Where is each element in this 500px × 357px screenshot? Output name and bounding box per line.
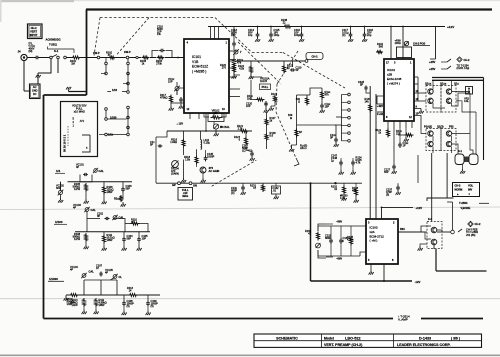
dashed linkage volts/div: [94, 18, 252, 56]
svg-text:1/8W: 1/8W: [107, 238, 114, 242]
resistor R116: [170, 131, 185, 148]
scan crease line top: [0, 207, 500, 210]
capacitor C127 33P: [384, 150, 397, 174]
resistor R134 47: [305, 229, 320, 241]
label -25V: [429, 67, 447, 71]
capacitor C121 15P: [320, 100, 331, 113]
resistor network row2: [103, 233, 115, 244]
svg-text:1/1000: 1/1000: [49, 277, 58, 281]
capacitor C125: [398, 128, 409, 148]
capacitor C105 row2: [137, 234, 148, 242]
resistor R101: [70, 56, 81, 66]
capacitor C115 bus: [269, 27, 280, 42]
wire wafer feed: [335, 124, 342, 126]
capacitor C116 bus: [294, 27, 304, 42]
svg-text:100μ: 100μ: [294, 33, 300, 37]
grounds row2: [84, 242, 142, 251]
capacitor C114 bus: [248, 27, 260, 42]
wire bus y61: [229, 60, 305, 62]
contact SW1-P: [93, 51, 100, 59]
svg-text:+25V: +25V: [429, 67, 436, 71]
resistor R126 220: [396, 129, 413, 137]
svg-text:DC: DC: [33, 92, 37, 96]
transistor Q110: [428, 141, 433, 146]
svg-text:+12V: +12V: [416, 206, 423, 210]
svg-text:33P: 33P: [384, 170, 389, 174]
label PULL boxed: [260, 84, 271, 90]
label CH-2 FEE: [458, 222, 481, 237]
svg-text:R64: R64: [400, 227, 405, 231]
label box CH-2 VERT INPUT: [28, 24, 43, 39]
svg-text:R1xx: R1xx: [114, 197, 121, 201]
svg-text:Ω: Ω: [290, 116, 292, 120]
svg-text:V1B: V1B: [192, 60, 199, 64]
svg-text:270k: 270k: [156, 61, 162, 65]
svg-text:SCHEMATIC: SCHEMATIC: [276, 336, 298, 340]
svg-text:CH-2: CH-2: [455, 184, 462, 188]
resistor R118: [184, 149, 198, 164]
svg-text:−56V: −56V: [336, 220, 342, 224]
labels Q105-Q108: [425, 82, 459, 86]
label T-2584: [427, 198, 489, 210]
trimmer DC BAL: [213, 124, 230, 129]
svg-text:5P: 5P: [296, 68, 299, 72]
ground S-3: [418, 244, 427, 251]
wire +12V bus: [208, 25, 455, 29]
svg-text:470kΩ: 470kΩ: [160, 96, 168, 100]
svg-text:CAL: CAL: [99, 169, 105, 173]
wire IC103 net rails: [318, 226, 366, 256]
svg-text:CAL: CAL: [91, 208, 97, 212]
scan edge line bottom: [0, 354, 500, 356]
scan smudge top-left: [0, 0, 500, 22]
schematic border frame: [44, 10, 493, 319]
svg-text:(C): (C): [242, 148, 246, 152]
IC103 right pin out: [398, 227, 415, 232]
svg-text:(M): (M): [29, 49, 33, 53]
capacitor C151 at verticals: [358, 80, 370, 93]
svg-text:AC GAIN: AC GAIN: [209, 169, 220, 173]
svg-text:.01: .01: [273, 188, 277, 192]
wire long vertical B: [375, 94, 377, 219]
svg-text:S-1: S-1: [54, 49, 59, 53]
switch S-1: [50, 49, 67, 59]
wire -12V bottom run: [311, 280, 421, 284]
svg-text:CL: CL: [119, 275, 123, 279]
wire vert x418: [417, 84, 419, 183]
legend box VOLTS/DIV PULL x10MAG: [61, 102, 98, 157]
svg-text:(C): (C): [231, 191, 235, 195]
svg-text:1M: 1M: [71, 62, 75, 66]
wire input to frame: [27, 57, 92, 59]
svg-text:1000P: 1000P: [207, 154, 215, 158]
resistor R119: [233, 54, 244, 68]
label 1/10: [107, 88, 126, 92]
transistor Q105: [428, 89, 433, 94]
svg-text:F+42: F+42: [377, 112, 383, 116]
svg-text:270: 270: [222, 65, 227, 69]
svg-text:+42V: +42V: [377, 104, 383, 108]
label R130 net: [340, 194, 348, 200]
resistor R106 111k: [103, 185, 114, 195]
svg-text:P32: P32: [449, 125, 454, 129]
svg-text:AC: AC: [33, 85, 37, 89]
pot VR103 10k: [208, 109, 224, 126]
trimmer VC106 15P: [168, 77, 180, 95]
svg-text:x2B: x2B: [387, 73, 392, 77]
wire S-2 drops: [458, 134, 476, 155]
label T-2514 V.AMP at frame gap: [398, 314, 410, 321]
resistor R141 47k: [321, 88, 332, 100]
svg-text:IC103: IC103: [370, 226, 378, 230]
svg-text:AC/GND/DC: AC/GND/DC: [46, 38, 61, 42]
wire row1 drops: [61, 182, 124, 191]
label +42V pins: [377, 104, 384, 116]
wire lower cluster: [156, 131, 203, 178]
svg-text:▲: ▲: [457, 193, 460, 196]
resistor R124v: [234, 131, 248, 150]
svg-text:IC102: IC102: [387, 68, 395, 72]
svg-text:( +M ): ( +M ): [370, 239, 378, 243]
resistor R108 990k: [73, 232, 88, 242]
svg-text:(C): (C): [342, 33, 346, 37]
resistor R115: [95, 298, 107, 307]
svg-text:3P: 3P: [330, 135, 333, 139]
contact SW2-P: [124, 50, 131, 59]
op-amp IC103: [366, 219, 398, 264]
capacitor C122 3P: [330, 125, 339, 147]
svg-text:LEADER ELECTRONICS CORP.: LEADER ELECTRONICS CORP.: [397, 343, 451, 347]
resistor R107 1M: [114, 195, 123, 202]
capacitor C145 1000P: [204, 150, 215, 161]
svg-text:1/2W: 1/2W: [74, 187, 81, 191]
transistor Q114: [431, 239, 437, 245]
arrow to T-2154: [447, 57, 470, 69]
svg-text:Q1(3): Q1(3): [437, 125, 444, 129]
transistor Q108: [446, 98, 451, 103]
svg-text:1P: 1P: [299, 130, 302, 134]
resistor R142 560: [376, 42, 384, 53]
svg-text:+25V: +25V: [429, 60, 436, 64]
wire C113 chain to bus: [234, 27, 240, 76]
trimmer VC104: [70, 265, 94, 278]
resistor R135: [347, 226, 354, 256]
wire row2 drops: [104, 232, 139, 238]
svg-text:15P: 15P: [325, 104, 330, 108]
svg-text:ECM-512Z: ECM-512Z: [192, 65, 208, 69]
svg-text:R121: R121: [271, 92, 278, 96]
trimmer cal mark VC101: [93, 168, 104, 173]
legend box CH-2 VOL NORM INV: [453, 183, 480, 197]
capacitor C117 bus: [342, 27, 353, 42]
svg-text:Q1x: Q1x: [454, 82, 459, 86]
grounds row3: [82, 306, 151, 315]
junction dot main-IC101: [177, 57, 179, 59]
svg-text:1/2W: 1/2W: [72, 303, 79, 307]
label -12V left: [176, 122, 183, 126]
resistor R103: [140, 56, 150, 65]
capacitor C109 1000P: [146, 295, 158, 308]
svg-text:5.6: 5.6: [270, 133, 274, 137]
svg-text:Q1xx: Q1xx: [425, 82, 432, 86]
IC102 top pins: [391, 27, 403, 60]
resistor R109 47: [125, 218, 148, 232]
svg-text:NORM: NORM: [455, 188, 463, 192]
capacitor C146 dashed: [150, 137, 162, 183]
label -56V bottom: [326, 257, 342, 261]
pot VR106: [316, 243, 321, 248]
label Rx LBx-1: [300, 144, 307, 150]
svg-text:100Ω: 100Ω: [395, 41, 401, 45]
ground row3 start: [64, 295, 69, 301]
wire long vertical C: [381, 206, 423, 219]
svg-text:16P: 16P: [246, 104, 251, 108]
contact end bus61: [305, 60, 308, 63]
capacitor C130: [339, 226, 349, 256]
resistor R104: [156, 56, 165, 65]
svg-text:1kΩ B: 1kΩ B: [260, 79, 267, 83]
resistor R110 inline: [67, 294, 80, 306]
svg-text:1P: 1P: [96, 266, 99, 270]
trimmer VC101: [76, 163, 92, 182]
svg-text:+12V: +12V: [447, 25, 455, 29]
IC103 bottom pin: [369, 264, 385, 282]
svg-text:S-1: S-1: [458, 149, 463, 153]
svg-text:SW-P: SW-P: [124, 50, 131, 54]
resistor R102: [106, 51, 116, 59]
svg-text:D-1433: D-1433: [419, 336, 431, 340]
capacitor C110 bridge: [152, 25, 172, 58]
ground below IC102: [404, 135, 409, 142]
wire J4 shield down: [24, 59, 58, 91]
svg-text:→12V: →12V: [176, 122, 183, 126]
svg-text:CAL: CAL: [464, 99, 470, 103]
ground feedback: [289, 145, 296, 152]
svg-text:1/10: 1/10: [112, 88, 118, 92]
svg-text:12P: 12P: [231, 33, 236, 37]
svg-text:PULL: PULL: [262, 85, 269, 89]
svg-text:CH-2: CH-2: [464, 58, 471, 62]
svg-text:J31 (3b): J31 (3b): [466, 233, 475, 237]
capacitor C119 5P: [290, 61, 302, 72]
resistor R121b: [269, 92, 278, 111]
wire S3 down: [432, 153, 487, 271]
label box CH-1 ref: [306, 53, 323, 60]
capacitor C103 56P: [121, 184, 132, 192]
capacitor C132 box: [272, 183, 281, 199]
capacitor C102 3P: [97, 212, 110, 221]
svg-text:( 3/6 ): ( 3/6 ): [451, 336, 460, 340]
wire feedback net: [297, 88, 336, 145]
svg-text:47k: 47k: [325, 92, 330, 96]
svg-text:100μ: 100μ: [274, 33, 280, 37]
IC101 left pins: [171, 58, 184, 104]
svg-text:CH-1: CH-1: [311, 54, 318, 58]
label AC/GND/DC: [46, 38, 61, 42]
wire col taps: [99, 74, 128, 135]
svg-text:(GAIN): (GAIN): [171, 171, 179, 175]
svg-text:VOL: VOL: [468, 184, 474, 188]
svg-text:4P: 4P: [70, 268, 73, 272]
resistor R123: [283, 61, 294, 74]
label box FULL x10 MAG: [178, 188, 193, 201]
switch wafer contacts S2-A: [105, 58, 130, 136]
junction dots misc: [257, 26, 404, 28]
IC102 right pins: [414, 77, 426, 130]
scan crease line lower: [0, 298, 500, 300]
op-amp IC101: [184, 39, 229, 113]
wire heavy L drop: [310, 183, 312, 281]
svg-text:( +M285 ): ( +M285 ): [192, 69, 206, 73]
svg-text:V,BODE: V,BODE: [461, 206, 471, 210]
resistor R1xx gain: [247, 80, 264, 101]
svg-text:1/2W: 1/2W: [74, 237, 81, 241]
svg-text:GN: GN: [193, 184, 197, 188]
resistor R131: [250, 183, 265, 192]
wire row3 subrow: [84, 280, 117, 295]
resistor R138 bus: [281, 18, 292, 28]
svg-text:.5 V: .5 V: [80, 119, 85, 123]
wire +12V drop: [430, 27, 436, 60]
svg-text:ECM-1048: ECM-1048: [387, 77, 402, 81]
capacitor C149 680P: [231, 183, 246, 195]
capacitor C104 56P: [122, 234, 133, 242]
svg-text:LBO-522: LBO-522: [345, 336, 361, 340]
resistor R113 in line: [127, 286, 138, 297]
matrix lower wires: [421, 93, 476, 153]
transistor Q109: [428, 131, 433, 136]
capacitor C148 group: [331, 154, 355, 167]
svg-text:x2A: x2A: [370, 230, 375, 234]
IC102 bottom pins: [388, 121, 412, 128]
capacitor C108 1000P: [122, 295, 134, 308]
wire long vertical A: [369, 86, 371, 219]
contact output: [437, 230, 454, 234]
svg-text:P1A(2): P1A(2): [424, 125, 432, 129]
transistor Q113: [431, 227, 437, 233]
resistor R105 900k: [73, 182, 88, 192]
junction output bus: [310, 182, 337, 184]
grounds lower cluster: [181, 129, 219, 183]
resistor R139 300: [296, 95, 309, 106]
trimmer VC107: [233, 46, 242, 55]
svg-text:T-2584: T-2584: [459, 201, 468, 205]
svg-text:1/8W: 1/8W: [99, 303, 106, 307]
svg-text:LBx-1: LBx-1: [300, 146, 307, 150]
resistor R125 group: [339, 156, 363, 175]
wire IC103 left net: [318, 224, 326, 258]
svg-text:CH-2 POS: CH-2 POS: [413, 42, 426, 46]
labels P1A row: [424, 125, 454, 129]
grounds row1: [58, 192, 126, 207]
pot VR101A: [251, 74, 270, 83]
pot VR104 gain: [171, 161, 179, 176]
svg-text:10μ: 10μ: [248, 33, 253, 37]
svg-text:1/8W: 1/8W: [107, 190, 114, 194]
bus pair heavy: [432, 78, 484, 161]
svg-text:V, AMP: V, AMP: [398, 318, 408, 322]
contact mid: [136, 56, 138, 58]
transistor Q112: [446, 141, 451, 146]
switch wiper arrow: [212, 158, 299, 186]
svg-text:Model: Model: [324, 336, 334, 340]
label -56V top: [326, 220, 342, 225]
IC101 right pins: [229, 51, 240, 97]
svg-text:14k: 14k: [365, 99, 370, 103]
capacitor C147 560P: [242, 144, 255, 161]
wire contact link: [447, 153, 452, 230]
svg-text:10k: 10k: [213, 111, 218, 115]
svg-text:4P: 4P: [76, 165, 79, 169]
svg-text:CH-2: CH-2: [31, 26, 38, 30]
capacitor C118 bus: [362, 27, 373, 42]
capacitor C107 1P: [96, 264, 103, 277]
wire attenuator row2: [75, 212, 150, 232]
svg-text:−56V: −56V: [336, 257, 342, 261]
label 1/1000 col: [108, 133, 114, 137]
svg-text:560: 560: [379, 44, 384, 48]
resistor R117 470k: [160, 93, 174, 111]
svg-text:1P: 1P: [403, 143, 406, 147]
svg-text:CH-2: CH-2: [475, 222, 482, 226]
transistor Q107: [446, 89, 451, 94]
svg-text:(5): (5): [151, 304, 154, 308]
svg-text:56P: 56P: [126, 187, 131, 191]
svg-text:2.2k: 2.2k: [238, 127, 244, 131]
switch wafer contacts S2-B: [336, 93, 350, 142]
label 1/4: [55, 169, 65, 173]
trimmer VC102 30P: [56, 182, 64, 196]
resistor R114 990k: [70, 298, 85, 307]
resistor R121 2.2k: [237, 124, 249, 133]
IC101 top pins: [211, 27, 219, 40]
svg-text:Q1xx: Q1xx: [440, 82, 447, 86]
capacitor C137 470P: [386, 183, 401, 196]
svg-text:(C201 14p): (C201 14p): [457, 66, 470, 70]
wire attenuator row3: [66, 294, 160, 296]
resistor R122: [238, 61, 254, 79]
svg-text:4.5k: 4.5k: [239, 66, 245, 70]
transistor Q102: [200, 166, 219, 173]
svg-text:50 20 10 5 2 1: 50 20 10 5 2 1: [63, 134, 67, 152]
label 1/1000: [48, 277, 64, 281]
connector GP contacts: [172, 182, 197, 188]
wire vr103 ends: [204, 113, 226, 117]
dashed pair box lower: [426, 129, 456, 151]
svg-text:44k: 44k: [352, 188, 357, 192]
trimmer VC10x row2: [112, 215, 124, 220]
wire IC101 out row: [167, 125, 252, 132]
svg-text:( +M274 ): ( +M274 ): [387, 82, 400, 86]
boxed arrow symbol: [466, 87, 473, 95]
switch S-2 body: [455, 149, 478, 165]
dashed pair box upper: [426, 86, 456, 113]
resistor R142 14k: [365, 97, 372, 113]
IC103 left pins: [0, 0, 1, 1]
label 1/100 col: [110, 116, 117, 120]
resistor R120 270: [220, 63, 237, 79]
dashed linkage right: [238, 42, 345, 158]
trimmer VC105: [105, 268, 122, 280]
label +25V: [429, 60, 447, 64]
trimmer VC103: [73, 203, 96, 212]
svg-text:680P: 680P: [325, 236, 331, 240]
transistor Q106: [428, 98, 433, 103]
svg-text:VERT. PREAMP (CH-2): VERT. PREAMP (CH-2): [324, 343, 363, 347]
svg-text:0.15μ: 0.15μ: [204, 140, 211, 144]
svg-text:INV: INV: [468, 188, 473, 192]
ground matrix: [418, 77, 424, 114]
